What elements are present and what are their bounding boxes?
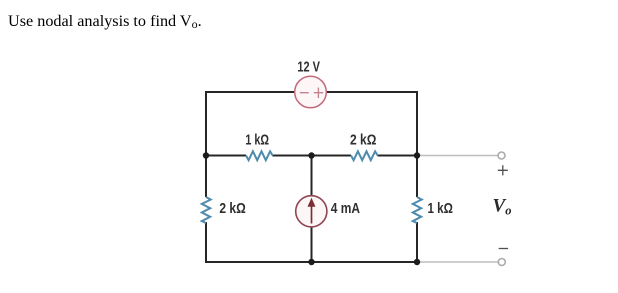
wire: center vertical from middle node to current source [311, 156, 313, 197]
resistor R3 2 kOhm vertical left [202, 197, 211, 223]
resistor R1 1 kOhm horizontal [246, 151, 273, 160]
wire: top left segment from top-left corner to voltage source [206, 91, 295, 93]
problem title text [8, 12, 202, 31]
wire: center vertical from current source to bottom node [311, 226, 313, 262]
wire: gray output lead top [418, 155, 499, 157]
wire: middle horizontal between 1k resistor and center node [273, 155, 352, 157]
wire: right vertical branch lower part [416, 222, 418, 263]
svg-text:4 mA: 4 mA [331, 201, 361, 217]
voltage source plus sign [314, 88, 323, 99]
svg-text:2 kΩ: 2 kΩ [350, 133, 376, 149]
wire: gray output lead bottom [418, 261, 499, 263]
terminal: open circle top output [498, 152, 505, 159]
node B center middle junction dot [308, 152, 314, 158]
voltage source V1 12V circle [295, 76, 327, 108]
svg-text:2 kΩ: 2 kΩ [219, 201, 245, 217]
resistor R4 1 kOhm vertical right [413, 197, 422, 223]
wire: bottom horizontal [206, 261, 417, 263]
current source I1 4mA circle [296, 196, 327, 227]
svg-text:Vo: Vo [493, 196, 512, 218]
node A left middle junction dot [203, 152, 209, 158]
current source arrow [311, 205, 313, 224]
wire: left vertical branch lower part [205, 222, 207, 263]
node E right bottom junction dot [414, 259, 420, 265]
wire: middle horizontal from 2k resistor to right node [378, 155, 418, 157]
wire: right vertical branch upper part [416, 91, 418, 197]
terminal: open circle bottom output [498, 259, 505, 266]
resistor R2 2 kOhm horizontal [351, 151, 378, 160]
wire: left vertical branch [205, 91, 207, 197]
svg-text:1 kΩ: 1 kΩ [245, 133, 269, 149]
node D center bottom junction dot [308, 259, 314, 265]
node C right middle junction dot [414, 152, 420, 158]
wire: top right segment from voltage source to top-right corner [326, 91, 417, 93]
svg-text:12 V: 12 V [297, 60, 320, 76]
label plus terminal [498, 165, 508, 175]
wire: middle horizontal left segment to 1k resistor [206, 155, 246, 157]
voltage source minus sign [300, 92, 309, 94]
svg-text:1 kΩ: 1 kΩ [428, 201, 453, 217]
label minus terminal [499, 248, 508, 250]
